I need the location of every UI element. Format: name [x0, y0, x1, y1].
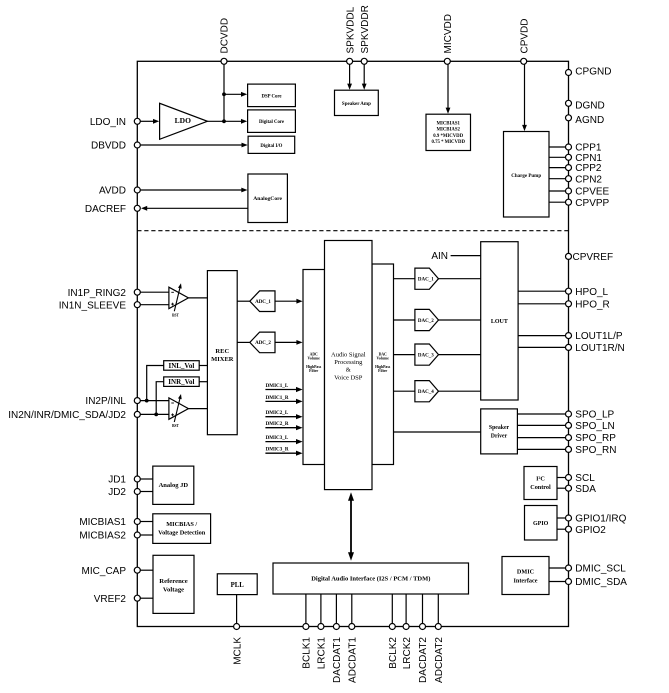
svg-text:BST: BST — [172, 424, 179, 428]
svg-text:BCLK1: BCLK1 — [302, 637, 313, 669]
svg-text:PLL: PLL — [231, 582, 245, 589]
svg-text:DMIC_SCL: DMIC_SCL — [575, 564, 626, 575]
svg-text:DCVDD: DCVDD — [220, 18, 231, 54]
svg-text:HPO_L: HPO_L — [575, 287, 608, 298]
svg-text:DMIC_SDA: DMIC_SDA — [575, 577, 627, 588]
svg-text:Volume: Volume — [308, 357, 321, 361]
svg-text:SPO_RN: SPO_RN — [575, 445, 616, 456]
svg-text:LRCK1: LRCK1 — [317, 637, 328, 670]
svg-text:JD2: JD2 — [108, 487, 126, 498]
svg-text:DACREF: DACREF — [85, 204, 126, 215]
svg-text:IN2N/INR/DMIC_SDA/JD2: IN2N/INR/DMIC_SDA/JD2 — [8, 410, 126, 421]
svg-text:DACDAT1: DACDAT1 — [332, 637, 343, 683]
svg-text:LOUT: LOUT — [491, 319, 508, 325]
svg-text:JD1: JD1 — [108, 475, 126, 486]
svg-text:IN2P/INL: IN2P/INL — [85, 396, 126, 407]
svg-text:DMIC1_R: DMIC1_R — [266, 395, 289, 401]
svg-text:ADC_2: ADC_2 — [255, 341, 271, 346]
svg-text:AIN: AIN — [431, 251, 448, 262]
svg-text:MCLK: MCLK — [232, 637, 243, 665]
svg-text:CPVDD: CPVDD — [519, 18, 530, 53]
svg-text:Processing: Processing — [334, 359, 363, 366]
svg-text:MICVDD: MICVDD — [443, 14, 454, 53]
svg-text:INL_Vol: INL_Vol — [168, 362, 194, 370]
svg-text:Audio Signal: Audio Signal — [331, 351, 366, 358]
svg-text:AnalogCore: AnalogCore — [253, 196, 282, 202]
svg-text:CPVPP: CPVPP — [575, 198, 609, 209]
svg-text:DMIC: DMIC — [517, 569, 534, 576]
svg-text:Speaker Amp: Speaker Amp — [342, 102, 371, 107]
svg-text:BST: BST — [172, 314, 179, 318]
svg-text:MICBIAS2: MICBIAS2 — [79, 531, 126, 542]
svg-text:HPO_R: HPO_R — [575, 299, 609, 310]
svg-text:MICBIAS /: MICBIAS / — [166, 521, 197, 528]
svg-text:SPKVDDR: SPKVDDR — [360, 5, 371, 53]
svg-text:Driver: Driver — [491, 434, 508, 440]
svg-text:CPVEE: CPVEE — [575, 187, 609, 198]
svg-text:AVDD: AVDD — [99, 186, 126, 197]
svg-text:GPIO2: GPIO2 — [575, 525, 606, 536]
svg-text:MICBIAS1: MICBIAS1 — [436, 122, 460, 127]
svg-text:INR_Vol: INR_Vol — [168, 378, 194, 386]
svg-text:ADC_1: ADC_1 — [255, 300, 271, 305]
svg-text:ADCDAT1: ADCDAT1 — [348, 637, 359, 683]
svg-text:Digital I/O: Digital I/O — [260, 144, 282, 149]
svg-text:LDO: LDO — [175, 116, 191, 125]
svg-text:DMIC3_L: DMIC3_L — [266, 435, 289, 441]
svg-text:DGND: DGND — [575, 101, 604, 112]
svg-text:SPO_RP: SPO_RP — [575, 433, 616, 444]
svg-text:DBVDD: DBVDD — [91, 141, 126, 152]
svg-text:VREF2: VREF2 — [94, 594, 127, 605]
svg-text:REC: REC — [215, 348, 229, 355]
svg-text:ADCDAT2: ADCDAT2 — [434, 637, 445, 683]
svg-text:AGND: AGND — [575, 115, 604, 126]
svg-text:DMIC3_R: DMIC3_R — [266, 447, 289, 453]
svg-text:BCLK2: BCLK2 — [388, 637, 399, 669]
svg-text:CPP2: CPP2 — [575, 163, 602, 174]
svg-text:Voltage: Voltage — [163, 587, 184, 594]
svg-text:CPVREF: CPVREF — [573, 252, 614, 263]
svg-text:Interface: Interface — [513, 578, 537, 585]
svg-text:LOUT1R/N: LOUT1R/N — [575, 343, 624, 354]
svg-text:MIXER: MIXER — [211, 356, 234, 363]
svg-text:IN1N_SLEEVE: IN1N_SLEEVE — [59, 300, 127, 311]
svg-text:DAC_2: DAC_2 — [418, 319, 434, 324]
svg-text:Volume: Volume — [377, 357, 390, 361]
svg-text:Analog JD: Analog JD — [159, 482, 189, 489]
svg-text:IN1P_RING2: IN1P_RING2 — [68, 288, 127, 299]
svg-text:Digital Core: Digital Core — [259, 120, 284, 125]
svg-text:Control: Control — [530, 484, 551, 491]
svg-text:LOUT1L/P: LOUT1L/P — [575, 331, 623, 342]
svg-text:DAC_1: DAC_1 — [418, 278, 434, 283]
svg-text:&: & — [346, 367, 351, 374]
svg-text:SPO_LP: SPO_LP — [575, 410, 614, 421]
svg-text:Digital Audio Interface (I2S /: Digital Audio Interface (I2S / PCM / TDM… — [311, 576, 430, 583]
svg-text:0.9 *MICVDD: 0.9 *MICVDD — [433, 134, 463, 139]
svg-text:Filter: Filter — [378, 369, 387, 373]
svg-text:DACDAT2: DACDAT2 — [418, 637, 429, 683]
svg-text:Speaker: Speaker — [489, 425, 510, 431]
svg-text:LDO_IN: LDO_IN — [90, 117, 126, 128]
svg-text:MICBIAS2: MICBIAS2 — [436, 128, 460, 133]
svg-text:GPIO1/IRQ: GPIO1/IRQ — [575, 514, 626, 525]
svg-text:I²C: I²C — [536, 476, 545, 483]
svg-text:Voltage Detection: Voltage Detection — [158, 529, 206, 536]
svg-text:DMIC2_R: DMIC2_R — [266, 421, 289, 427]
svg-text:MICBIAS1: MICBIAS1 — [79, 517, 126, 528]
svg-text:LRCK2: LRCK2 — [402, 637, 413, 670]
svg-text:DMIC1_L: DMIC1_L — [266, 383, 289, 389]
svg-text:DAC_3: DAC_3 — [418, 353, 434, 358]
svg-text:Charge Pump: Charge Pump — [511, 174, 541, 179]
svg-text:SCL: SCL — [575, 473, 595, 484]
svg-text:Filter: Filter — [309, 369, 318, 373]
svg-text:DSP Core: DSP Core — [261, 94, 281, 99]
svg-text:Reference: Reference — [159, 578, 187, 585]
svg-text:SPKVDDL: SPKVDDL — [345, 6, 356, 53]
svg-text:DMIC2_L: DMIC2_L — [266, 410, 289, 416]
svg-text:DAC_4: DAC_4 — [418, 390, 434, 395]
svg-text:Voice DSP: Voice DSP — [334, 374, 363, 381]
svg-text:CPN2: CPN2 — [575, 174, 602, 185]
svg-text:SPO_LN: SPO_LN — [575, 421, 614, 432]
svg-text:MIC_CAP: MIC_CAP — [82, 566, 127, 577]
svg-text:SDA: SDA — [575, 484, 596, 495]
svg-text:CPGND: CPGND — [575, 66, 611, 77]
svg-text:0.75 * MICVDD: 0.75 * MICVDD — [431, 140, 465, 145]
svg-text:GPIO: GPIO — [533, 521, 549, 527]
